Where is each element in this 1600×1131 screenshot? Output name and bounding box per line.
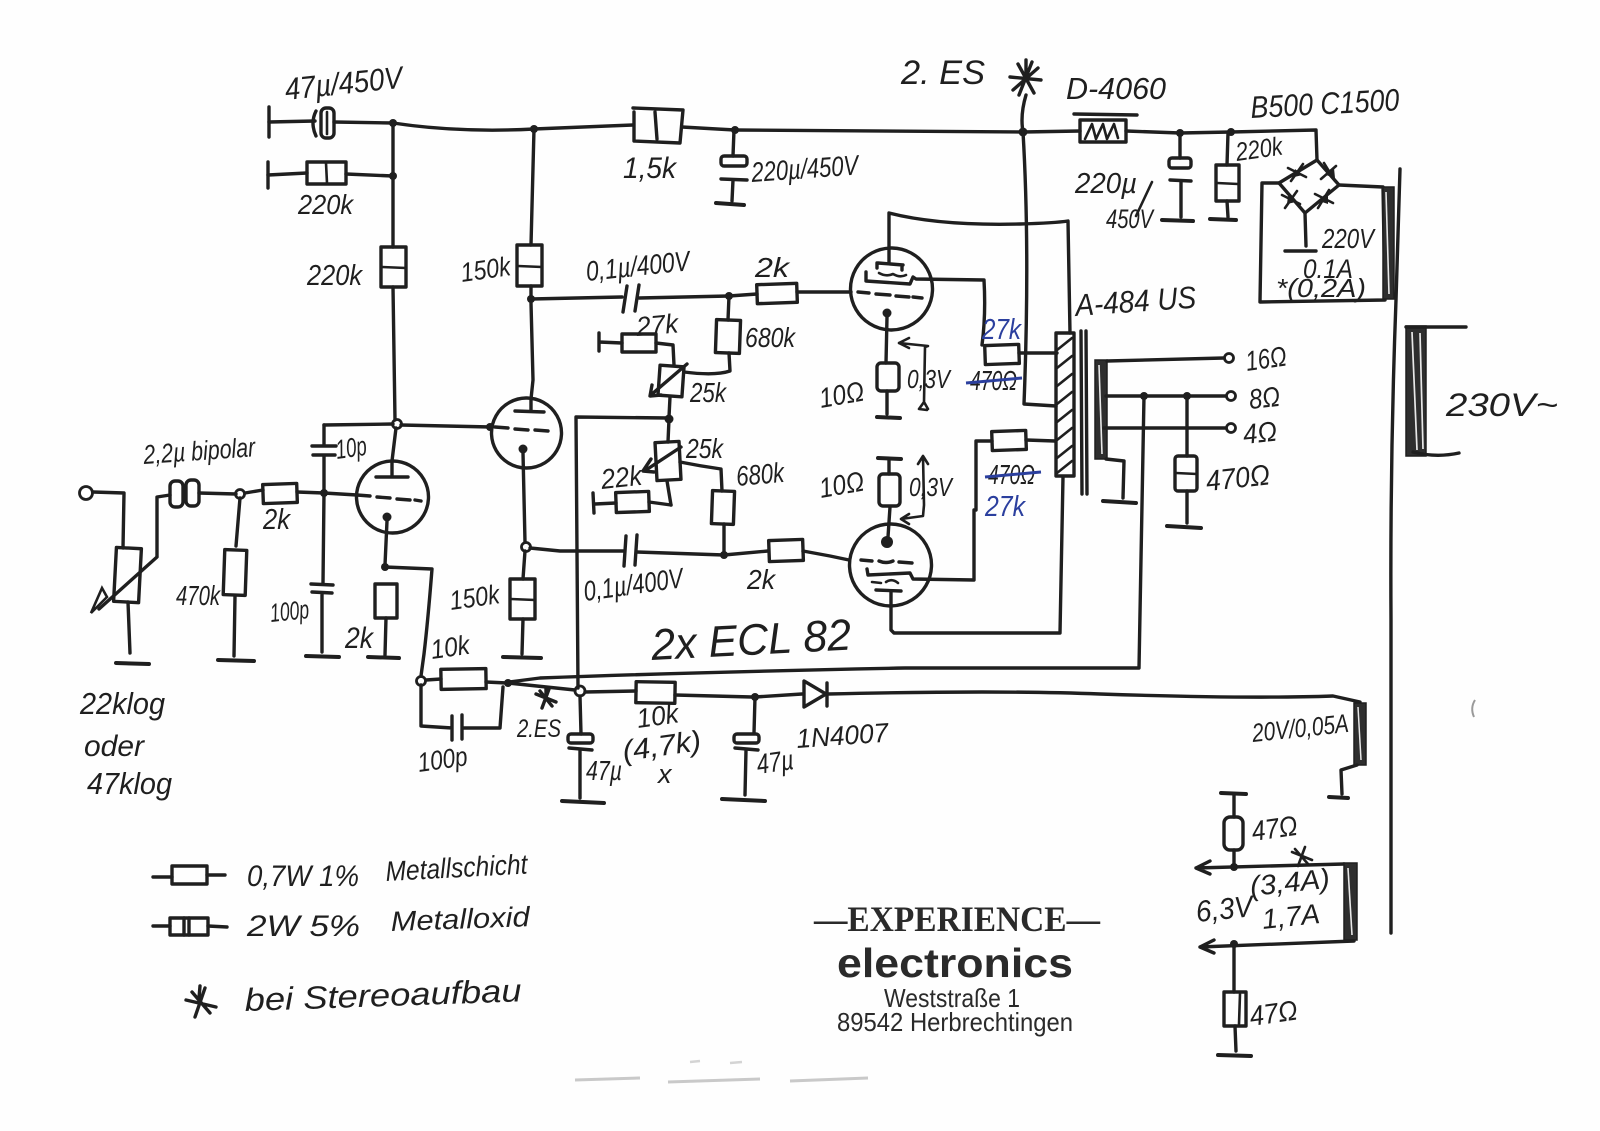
value label 27k blue lower — [984, 491, 1026, 523]
node 4R terminal — [1227, 416, 1279, 450]
star marker 2.ES lower — [516, 688, 561, 743]
tube V3 control grid — [858, 292, 922, 298]
value label 1N4007 — [795, 718, 890, 754]
junction — [320, 489, 328, 497]
value label 220k — [306, 260, 363, 292]
svg-text:2k: 2k — [344, 622, 375, 655]
svg-text:220k: 220k — [1233, 130, 1286, 167]
junction — [751, 693, 759, 701]
resistor 10k feedback — [426, 669, 507, 690]
label 2. ES — [900, 54, 985, 92]
ground — [1218, 1055, 1251, 1056]
wire — [1023, 131, 1080, 132]
svg-text:10Ω: 10Ω — [817, 376, 867, 414]
tube V4 cathode — [881, 507, 893, 548]
value label 10R — [817, 466, 867, 504]
value label 27k blue — [981, 314, 1022, 346]
wire — [735, 130, 1023, 132]
annotation 0,3V upper — [899, 338, 952, 410]
wire — [269, 121, 315, 122]
resistor 47R heater lower — [1224, 945, 1246, 1051]
svg-text:16Ω: 16Ω — [1244, 341, 1289, 377]
value label 47u — [755, 744, 796, 780]
value label 470R crossed out — [966, 365, 1022, 396]
resistor 27k screen upper — [985, 344, 1057, 364]
wire bridge minus — [1305, 213, 1306, 246]
value label 0,1u/400V — [584, 245, 693, 287]
value label 470R — [1204, 459, 1271, 498]
capacitor 10p feedback — [312, 425, 336, 493]
svg-text:2. ES: 2. ES — [900, 54, 985, 92]
svg-text:27k: 27k — [634, 308, 681, 342]
wire HT box outline — [1260, 183, 1385, 302]
wire feedback to 10k — [385, 567, 432, 676]
ground — [218, 660, 254, 661]
value label 220k — [297, 189, 355, 220]
tube V3 plate — [877, 263, 903, 270]
wire 16R tap — [1107, 358, 1224, 361]
svg-text:(3,4A): (3,4A) — [1248, 863, 1331, 902]
tube V4 pentode envelope — [850, 524, 932, 606]
node 16R terminal — [1225, 341, 1289, 377]
transformer heater winding 6,3V — [1344, 863, 1357, 940]
wire bias supply run — [828, 692, 1360, 702]
value label 47R — [1248, 995, 1300, 1032]
wire grid rail y424 — [324, 424, 491, 427]
capacitor 0,1u/400V coupling — [623, 285, 639, 312]
wire heater line top with arrow — [1196, 861, 1344, 874]
tube V2 grid — [495, 427, 548, 431]
wire 150k feed — [531, 129, 534, 245]
svg-text:0,3V: 0,3V — [907, 364, 952, 394]
resistor 150k anode load — [517, 245, 542, 286]
wire — [199, 493, 236, 494]
svg-text:0,7W 1%: 0,7W 1% — [247, 860, 359, 893]
wire — [1126, 131, 1180, 133]
tube V3 screen grid — [879, 273, 906, 276]
wire V2 plate lead — [531, 303, 533, 399]
svg-text:220µ: 220µ — [1074, 168, 1137, 200]
wire heater line bottom with arrow — [1200, 940, 1354, 953]
junction — [731, 126, 739, 134]
bridge rectifier B500C1500 — [1279, 160, 1339, 213]
resistor 2k grid stopper — [263, 483, 298, 503]
wire — [529, 286, 532, 299]
wire — [245, 490, 263, 493]
svg-text:220µ/450V: 220µ/450V — [749, 149, 861, 188]
svg-text:47µ: 47µ — [586, 755, 622, 786]
ground — [722, 799, 765, 801]
node input row2 terminal — [266, 162, 269, 188]
wire — [667, 481, 671, 505]
resistor 220k grid leak — [307, 162, 346, 184]
value label 10p — [334, 431, 369, 465]
value label 27k — [634, 308, 681, 342]
junction 470R — [1183, 392, 1191, 400]
svg-text:10k: 10k — [429, 630, 473, 665]
tube V2 plate — [515, 399, 544, 412]
svg-text:220k: 220k — [306, 260, 363, 292]
svg-text:10p: 10p — [334, 431, 369, 465]
tube V1 plate — [376, 461, 408, 477]
diode 1N4007 — [755, 681, 827, 707]
label 6,3V (3,4A) 1,7A — [1194, 863, 1331, 935]
wire — [803, 551, 849, 560]
wire — [508, 683, 575, 690]
svg-text:150k: 150k — [448, 579, 503, 616]
value label 10k (4,7k) x — [621, 698, 704, 789]
transformer mains primary 230V — [1406, 326, 1426, 456]
svg-text:47Ω: 47Ω — [1250, 810, 1300, 847]
junction — [725, 292, 733, 300]
svg-text:2x ECL 82: 2x ECL 82 — [649, 611, 852, 670]
junction — [1227, 128, 1235, 136]
resistor 2k grid stopper lower — [769, 539, 804, 561]
node V2 cathode junction — [522, 543, 531, 552]
svg-text:electronics: electronics — [837, 940, 1073, 986]
value label 25k — [685, 433, 724, 464]
label D-4060 — [1066, 71, 1166, 106]
value label 47u/450V — [283, 60, 407, 107]
junction — [389, 119, 397, 127]
ground — [116, 663, 149, 664]
svg-text:220k: 220k — [297, 189, 355, 220]
value label 100p — [416, 741, 470, 778]
resistor 2k grid stopper upper — [757, 283, 798, 303]
junction 8R feedback — [1140, 392, 1148, 400]
svg-text:22k: 22k — [598, 460, 645, 495]
value label 680k — [735, 457, 787, 492]
capacitor 47u second — [734, 697, 759, 795]
tube V4 screen marks — [872, 580, 898, 583]
wire OT secondary return — [1106, 459, 1124, 498]
svg-text:47µ/450V: 47µ/450V — [283, 60, 407, 107]
capacitor C2 220u/450V lead — [733, 130, 734, 156]
value label 0,1u/400V — [582, 562, 687, 607]
wire mains top lead — [1406, 325, 1466, 328]
value label 680k — [745, 322, 797, 353]
svg-text:Metallschicht: Metallschicht — [385, 849, 529, 887]
label 220V 0.1A *(0.2A) — [1276, 223, 1376, 303]
svg-text:2k: 2k — [262, 504, 291, 536]
transformer OT secondary winding — [1095, 360, 1107, 459]
capacitor C1 47u/450V — [313, 108, 334, 138]
value label 220u/450V — [749, 149, 861, 188]
junction 2.ES node — [1019, 128, 1028, 137]
wire B+ rail left — [334, 122, 393, 123]
node grid junction — [236, 490, 245, 499]
ground cathode bar — [877, 417, 900, 418]
value label 47R and star — [1250, 810, 1312, 866]
svg-text:47klog: 47klog — [87, 766, 172, 801]
junction — [1230, 863, 1238, 871]
resistor 10R cathode lower — [879, 460, 900, 506]
resistor 220k bleeder — [1216, 133, 1239, 217]
fuse D-4060 — [1074, 114, 1137, 142]
svg-text:D-4060: D-4060 — [1066, 71, 1166, 106]
resistor 220k anode load — [381, 247, 406, 287]
value label 10R — [817, 376, 867, 414]
wire — [346, 174, 393, 176]
wire — [797, 290, 851, 293]
transformer OT core — [1081, 331, 1087, 494]
svg-text:100p: 100p — [416, 741, 470, 778]
value label 47u — [586, 755, 622, 786]
stray pen mark — [1472, 700, 1475, 717]
svg-text:89542 Herbrechtingen: 89542 Herbrechtingen — [837, 1007, 1073, 1037]
wire — [682, 127, 735, 130]
value label 150k — [448, 579, 503, 616]
svg-text:0,3V: 0,3V — [909, 472, 954, 502]
resistor 27k screen lower — [976, 430, 1055, 510]
svg-text:2k: 2k — [746, 564, 777, 595]
svg-text:2,2µ bipolar: 2,2µ bipolar — [142, 432, 257, 470]
capacitor 100p input — [311, 493, 333, 652]
svg-text:450V: 450V — [1106, 204, 1155, 234]
transformer HT winding 220V — [1383, 187, 1394, 299]
transformer OT primary winding — [1056, 333, 1074, 476]
capacitor 2,2u bipolar — [170, 480, 199, 507]
svg-text:47Ω: 47Ω — [1248, 995, 1300, 1032]
wire trimmer wiper to 680k — [680, 462, 722, 491]
legend resistor 2W symbol — [153, 918, 227, 935]
svg-text:oder: oder — [84, 730, 145, 763]
tube V1 grid — [357, 495, 421, 501]
svg-text:680k: 680k — [735, 457, 787, 492]
svg-text:1,5k: 1,5k — [623, 152, 678, 185]
wire — [1180, 132, 1231, 133]
wire transformer common line — [1391, 169, 1400, 933]
ground — [1167, 526, 1201, 528]
ground — [1162, 220, 1193, 221]
wire — [393, 123, 534, 130]
junction V2 plate node — [527, 295, 535, 303]
svg-text:0,1µ/400V: 0,1µ/400V — [582, 562, 687, 607]
svg-text:B500 C1500: B500 C1500 — [1250, 82, 1401, 125]
svg-text:470Ω: 470Ω — [1204, 459, 1271, 498]
svg-text:25k: 25k — [689, 377, 727, 408]
resistor 150k cathode V2 — [510, 579, 535, 654]
junction balance node — [665, 415, 674, 424]
svg-text:A-484 US: A-484 US — [1072, 280, 1197, 324]
transformer bias winding 20V — [1354, 703, 1366, 765]
tube V4 plate — [876, 590, 901, 591]
svg-text:27k: 27k — [984, 491, 1026, 523]
junction — [1230, 940, 1238, 948]
tube V1 triode envelope — [357, 461, 429, 533]
svg-text:4Ω: 4Ω — [1241, 416, 1278, 450]
value label 100p — [268, 594, 310, 628]
value label 470R crossed out lower — [985, 459, 1041, 490]
resistor 680k upper — [684, 296, 741, 374]
junction V2 grid entry — [486, 423, 494, 431]
resistor 47R heater upper — [1221, 793, 1246, 866]
svg-text:25k: 25k — [685, 433, 724, 464]
svg-text:47µ: 47µ — [755, 744, 796, 780]
legend text 0,7W 1% Metallschicht — [247, 849, 529, 893]
label 230V~ — [1445, 387, 1558, 423]
wire — [531, 297, 622, 299]
resistor 2k cathode — [375, 584, 397, 655]
tube V2 cathode — [519, 445, 528, 543]
capacitor C2 220u/450V — [721, 156, 747, 201]
value label 10k — [429, 630, 473, 665]
value label 470k — [176, 580, 221, 611]
tube V4 control grid — [861, 560, 912, 563]
svg-text:8Ω: 8Ω — [1247, 381, 1281, 415]
node V1 plate junction — [392, 420, 402, 462]
resistor 10k 4,7k bias — [636, 682, 752, 704]
wire — [297, 492, 324, 493]
svg-text:2k: 2k — [754, 252, 791, 283]
tube V4 screen and g2 lead — [867, 510, 974, 580]
svg-text:1N4007: 1N4007 — [795, 718, 890, 754]
resistor 1,5k — [633, 108, 683, 143]
label B500 C1500 — [1250, 82, 1401, 125]
svg-text:x: x — [656, 759, 673, 789]
tube V1 cathode node — [381, 563, 389, 571]
annotation 0,3V lower — [901, 456, 954, 524]
ground — [368, 657, 399, 658]
tube V1 cathode — [383, 513, 392, 566]
label A-484 US — [1072, 280, 1197, 324]
svg-text:150k: 150k — [459, 251, 514, 288]
svg-text:Metalloxid: Metalloxid — [390, 901, 532, 937]
ground cathode bar lower — [878, 458, 901, 459]
junction — [720, 551, 728, 559]
wire — [639, 296, 729, 298]
wire — [93, 492, 124, 548]
svg-text:100p: 100p — [268, 594, 310, 628]
value label 2k — [344, 622, 375, 655]
ground — [562, 801, 604, 803]
junction — [1176, 129, 1184, 137]
wire — [534, 125, 633, 129]
node 220V DC terminal — [1285, 249, 1316, 252]
legend star bei Stereoaufbau — [186, 972, 522, 1018]
wire — [585, 691, 636, 692]
input jack — [80, 487, 93, 500]
tube V3 suppressor and g2 lead — [866, 272, 985, 345]
value label 150k — [459, 251, 514, 288]
label 22klog oder 47klog — [79, 686, 172, 801]
svg-text:bei Stereoaufbau: bei Stereoaufbau — [244, 972, 522, 1018]
wire pot wiper up — [157, 495, 170, 556]
value label 2,2u bipolar — [142, 432, 257, 470]
tube V3 cathode — [883, 309, 892, 364]
resistor 10R cathode upper — [877, 363, 899, 414]
label 2x ECL 82 — [649, 611, 852, 670]
svg-text:680k: 680k — [745, 322, 797, 353]
legend resistor 0,7W symbol — [153, 866, 225, 884]
wire bias winding return — [1341, 765, 1357, 794]
value label 20V/0.05A — [1250, 708, 1350, 748]
node 8R terminal — [1227, 381, 1282, 415]
node B+ input terminal — [267, 107, 270, 137]
wire — [729, 294, 757, 296]
tube V3 pentode envelope — [850, 248, 932, 330]
svg-text:0,1µ/400V: 0,1µ/400V — [584, 245, 693, 287]
value label 2k — [746, 564, 777, 595]
svg-text:2.ES: 2.ES — [516, 715, 561, 743]
wire pot bottom — [128, 602, 130, 653]
resistor 470R zobel — [1175, 396, 1197, 523]
capacitor 47u first — [568, 696, 593, 798]
svg-text:22klog: 22klog — [79, 686, 165, 721]
svg-text:10Ω: 10Ω — [817, 466, 867, 504]
wire — [669, 397, 670, 417]
wire V3 plate to OT primary top — [889, 213, 1070, 333]
value label 22k — [598, 460, 645, 495]
wire 8R tap — [1106, 394, 1226, 397]
resistor 27k upper left — [599, 333, 674, 365]
svg-text:230V~: 230V~ — [1445, 387, 1558, 423]
ground — [1210, 219, 1236, 220]
wire — [637, 551, 768, 555]
ground secondary — [1103, 501, 1136, 503]
wire — [523, 551, 525, 579]
star marker 2.ES — [1010, 60, 1041, 95]
stamp EXPERIENCE electronics — [813, 899, 1101, 1037]
trimmer 25k lower — [643, 419, 681, 481]
node balance tie — [575, 686, 585, 696]
svg-text:—EXPERIENCE—: —EXPERIENCE— — [813, 899, 1101, 939]
value label 220k — [1233, 130, 1286, 167]
svg-text:470k: 470k — [176, 580, 221, 611]
wire balance to bias rail — [576, 417, 669, 688]
svg-text:1,7A: 1,7A — [1260, 898, 1321, 935]
ground — [503, 657, 541, 658]
junction — [389, 172, 397, 180]
ground — [716, 203, 744, 205]
svg-text:27k: 27k — [981, 314, 1022, 346]
ground bias — [1329, 797, 1348, 798]
wire — [268, 173, 307, 175]
value label 25k — [689, 377, 727, 408]
capacitor 0,1u/400V coupling lower — [624, 535, 637, 566]
potentiometer 22k log — [91, 547, 157, 613]
svg-text:6,3V: 6,3V — [1194, 890, 1257, 929]
svg-text:2W 5%: 2W 5% — [246, 910, 360, 943]
value label 220u / 450V — [1074, 168, 1155, 234]
resistor 22k — [593, 491, 671, 513]
svg-text:220V: 220V — [1321, 223, 1376, 254]
wire mains bottom lead — [1413, 452, 1459, 455]
ground — [306, 656, 339, 657]
wire 220k dropper vertical — [393, 123, 395, 420]
wire lower grid rail — [530, 548, 623, 551]
value label 1,5k — [623, 152, 678, 185]
tube V2 triode envelope — [492, 398, 562, 468]
junction — [530, 125, 538, 133]
wire V4 plate to OT primary bottom — [891, 477, 1063, 633]
resistor 470k grid leak — [223, 498, 247, 656]
junction — [504, 679, 512, 687]
legend text 2W 5% Metalloxid — [246, 901, 532, 943]
wire 4R tap — [1104, 426, 1226, 429]
capacitor 100p feedback — [421, 685, 503, 740]
wire to bridge — [1231, 130, 1317, 160]
wire into V1 grid — [324, 493, 357, 495]
resistor 680k lower — [711, 491, 734, 553]
value label 2k — [262, 504, 291, 536]
trimmer 25k upper — [650, 364, 687, 397]
node 10k feedback input — [417, 677, 426, 686]
wire feedback 8R to bias rail — [509, 396, 1144, 682]
value label 2k — [754, 252, 791, 283]
svg-text:*(0,2A): *(0,2A) — [1276, 273, 1366, 303]
wire 2.ES vertical B+ feed — [1022, 95, 1056, 406]
